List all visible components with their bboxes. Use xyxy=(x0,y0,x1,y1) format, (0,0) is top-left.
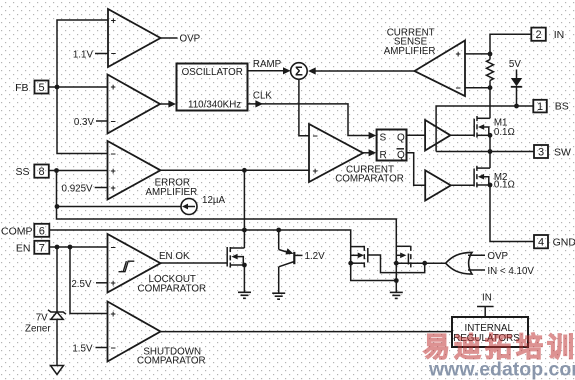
svg-text:−: − xyxy=(111,49,116,59)
svg-text:www.edatop.com: www.edatop.com xyxy=(428,359,575,380)
svg-text:+: + xyxy=(111,16,116,26)
svg-text:OSCILLATOR: OSCILLATOR xyxy=(182,67,243,78)
svg-text:SS: SS xyxy=(15,166,29,178)
svg-text:S: S xyxy=(380,133,387,144)
svg-text:4: 4 xyxy=(538,237,544,249)
svg-text:−: − xyxy=(111,116,116,126)
svg-text:0.1Ω: 0.1Ω xyxy=(494,127,515,138)
svg-text:FB: FB xyxy=(15,82,28,94)
svg-text:+: + xyxy=(111,166,116,176)
svg-text:110/340KHz: 110/340KHz xyxy=(188,99,241,110)
svg-text:Q: Q xyxy=(397,150,405,161)
svg-text:−: − xyxy=(111,343,116,353)
svg-text:12µA: 12µA xyxy=(202,195,226,206)
svg-text:1.5V: 1.5V xyxy=(72,344,93,355)
svg-text:Q: Q xyxy=(397,133,405,144)
svg-text:+: + xyxy=(111,278,116,288)
svg-text:IN: IN xyxy=(482,292,492,303)
svg-text:COMPARATOR: COMPARATOR xyxy=(335,174,404,185)
svg-text:7V: 7V xyxy=(36,313,48,324)
svg-text:COMPARATOR: COMPARATOR xyxy=(138,283,207,294)
svg-text:+: + xyxy=(313,166,318,176)
svg-text:OVP: OVP xyxy=(180,34,201,45)
svg-text:1: 1 xyxy=(537,101,543,113)
svg-text:EN OK: EN OK xyxy=(159,251,190,262)
svg-text:SW: SW xyxy=(554,147,571,159)
svg-text:R: R xyxy=(380,150,387,161)
svg-text:+: + xyxy=(111,183,116,193)
svg-text:5V: 5V xyxy=(509,59,521,70)
svg-text:7: 7 xyxy=(39,242,45,254)
svg-text:EN: EN xyxy=(16,243,31,255)
svg-text:Zener: Zener xyxy=(25,324,51,335)
svg-text:3: 3 xyxy=(538,147,544,159)
svg-text:+: + xyxy=(111,309,116,319)
svg-text:GND: GND xyxy=(553,236,575,248)
svg-text:IN: IN xyxy=(554,29,565,41)
svg-text:0.925V: 0.925V xyxy=(62,184,94,195)
svg-text:+: + xyxy=(111,82,116,92)
svg-text:−: − xyxy=(111,149,116,159)
svg-text:COMPARATOR: COMPARATOR xyxy=(137,356,206,367)
svg-text:COMP: COMP xyxy=(1,226,33,238)
svg-text:2: 2 xyxy=(535,29,541,41)
svg-text:0.1Ω: 0.1Ω xyxy=(494,180,515,191)
svg-text:IN < 4.10V: IN < 4.10V xyxy=(487,266,534,277)
svg-text:−: − xyxy=(111,242,116,252)
svg-text:AMPLIFIER: AMPLIFIER xyxy=(145,187,197,198)
svg-text:CLK: CLK xyxy=(253,91,273,102)
svg-text:2.5V: 2.5V xyxy=(71,279,92,290)
svg-text:RAMP: RAMP xyxy=(253,59,282,70)
svg-text:1.2V: 1.2V xyxy=(305,251,326,262)
svg-text:1.1V: 1.1V xyxy=(73,50,94,61)
svg-text:OVP: OVP xyxy=(487,251,508,262)
svg-text:0.3V: 0.3V xyxy=(74,117,95,128)
svg-text:−: − xyxy=(313,131,318,141)
svg-text:AMPLIFIER: AMPLIFIER xyxy=(384,46,436,57)
svg-text:BS: BS xyxy=(555,101,569,113)
svg-text:−: − xyxy=(456,83,461,93)
svg-text:6: 6 xyxy=(39,225,45,237)
svg-text:Σ: Σ xyxy=(295,64,303,79)
svg-text:8: 8 xyxy=(38,166,44,178)
svg-text:+: + xyxy=(456,49,461,59)
svg-text:5: 5 xyxy=(38,82,44,94)
